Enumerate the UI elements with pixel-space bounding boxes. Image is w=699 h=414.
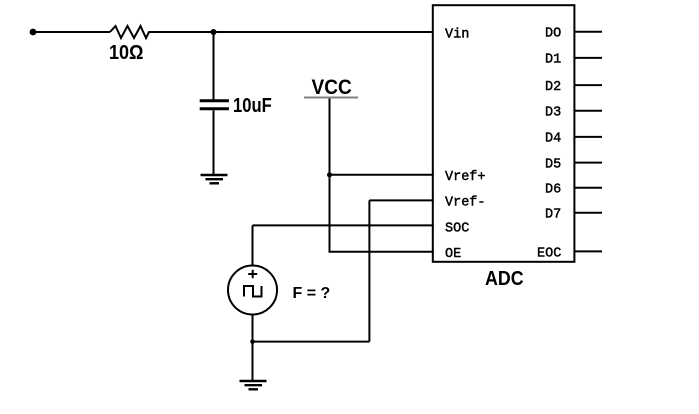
svg-text:D3: D3 (545, 106, 561, 121)
svg-text:10uF: 10uF (233, 95, 272, 117)
wire source bottom to Vref- (253, 341, 370, 343)
svg-text:ADC: ADC (485, 268, 524, 290)
pin D6 wire (574, 187, 602, 189)
pin EOC wire (574, 250, 602, 252)
pin D3 wire (574, 110, 602, 112)
power symbol VCC (304, 76, 358, 99)
svg-text:D1: D1 (545, 53, 561, 68)
capacitor C1 10uF (200, 101, 229, 109)
resistor R1 10ohm (110, 26, 152, 38)
node: junction at capacitor (211, 29, 217, 35)
node: junction below source (250, 339, 255, 344)
wire Vref+ (330, 174, 434, 176)
wire SOC down to source top (252, 225, 254, 266)
ground (source) (240, 381, 267, 389)
pin D5 wire (574, 162, 602, 164)
wire resistor to ADC Vin (152, 31, 433, 33)
voltage source V1 (pulse) (228, 266, 277, 315)
pin D7 wire (574, 212, 602, 214)
svg-text:EOC: EOC (537, 246, 561, 261)
svg-text:VCC: VCC (312, 76, 352, 99)
wire VCC vertical down to OE corner (330, 99, 434, 252)
pin D1 wire (574, 57, 602, 59)
ground (capacitor) (201, 175, 228, 183)
pin D4 wire (574, 136, 602, 138)
svg-text:10Ω: 10Ω (109, 42, 144, 64)
svg-text:DO: DO (545, 27, 561, 42)
wire source bottom (252, 315, 254, 382)
svg-text:OE: OE (445, 247, 461, 262)
node: junction on VCC line (327, 172, 332, 177)
svg-text:Vin: Vin (445, 27, 469, 42)
wire Vref- vertical (368, 200, 370, 341)
wire capacitor to ground (213, 110, 215, 175)
wire Vref- horizontal (369, 199, 433, 201)
svg-text:Vref-: Vref- (445, 196, 486, 211)
node: input terminal dot (30, 29, 37, 36)
wire input to resistor (33, 31, 110, 33)
svg-text:SOC: SOC (445, 221, 469, 236)
svg-text:F = ?: F = ? (293, 285, 331, 302)
svg-text:D5: D5 (545, 157, 561, 172)
ADC box U1 (433, 5, 575, 262)
svg-text:D2: D2 (545, 80, 561, 95)
svg-text:D6: D6 (545, 183, 561, 198)
pin D0 wire (574, 31, 602, 33)
wire SOC (253, 224, 434, 226)
pin D2 wire (574, 84, 602, 86)
svg-text:D4: D4 (545, 132, 561, 147)
wire junction down to capacitor (213, 32, 215, 100)
svg-text:Vref+: Vref+ (445, 170, 486, 185)
svg-text:D7: D7 (545, 208, 561, 223)
